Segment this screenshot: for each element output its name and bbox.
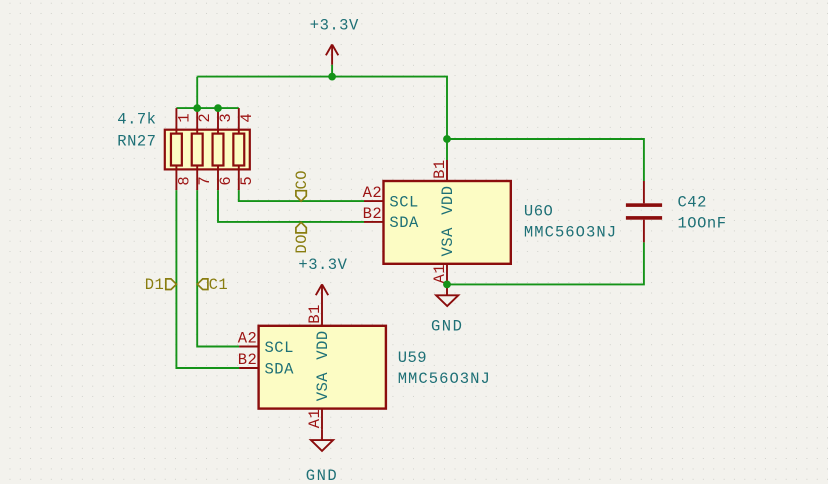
ground GND (U60) bbox=[436, 284, 458, 306]
RN27 pin 7 bbox=[196, 166, 198, 191]
wire +3.3V rail top bbox=[197, 77, 447, 139]
RN27 pin 1 bbox=[175, 108, 177, 134]
svg-text:1: 1 bbox=[175, 113, 193, 123]
svg-text:CO: CO bbox=[293, 170, 311, 190]
svg-text:SDA: SDA bbox=[389, 214, 419, 232]
ground GND (U59) bbox=[311, 429, 333, 451]
svg-text:B1: B1 bbox=[306, 304, 324, 324]
RN27 resistor element 4 bbox=[233, 134, 244, 166]
U59 pin B2 (SDA) bbox=[239, 367, 259, 369]
svg-text:A1: A1 bbox=[431, 264, 449, 284]
RN27 pin 4 bbox=[238, 108, 240, 134]
svg-text:SCL: SCL bbox=[265, 339, 294, 357]
wire RN27 top bus pins 1-4 bbox=[176, 107, 238, 109]
svg-text:MMC56O3NJ: MMC56O3NJ bbox=[524, 224, 617, 242]
junction RN27 pin 3 bbox=[214, 104, 222, 112]
resistor network RN27 body bbox=[165, 130, 250, 170]
RN27 resistor element 3 bbox=[213, 134, 224, 166]
hierarchical label C0 bbox=[293, 170, 311, 201]
junction U60 VSA / C42 / GND bbox=[443, 281, 451, 289]
U59 pin B1 (VDD) bbox=[321, 305, 323, 326]
svg-text:7: 7 bbox=[196, 176, 214, 186]
RN27 pin 2 bbox=[196, 108, 198, 134]
wire C42 bottom to U60 VSA/GND bbox=[447, 242, 644, 284]
svg-text:A2: A2 bbox=[238, 329, 258, 347]
svg-text:VSA: VSA bbox=[314, 372, 332, 402]
power +3.3V (top rail) bbox=[326, 45, 338, 65]
svg-text:B2: B2 bbox=[363, 205, 383, 223]
wire rail drop to RN27 pin 2 bbox=[196, 77, 198, 109]
U60 pin B1 (VDD) bbox=[446, 160, 448, 181]
svg-text:U59: U59 bbox=[398, 349, 427, 367]
svg-text:SCL: SCL bbox=[389, 193, 418, 211]
op IC U59 body bbox=[259, 326, 386, 409]
svg-text:VDD: VDD bbox=[439, 185, 457, 214]
capacitor C42 bbox=[626, 181, 662, 242]
wire RN27 pin5 to U60 SCL (net C0) bbox=[239, 190, 364, 201]
RN27 pin 5 bbox=[238, 166, 240, 191]
svg-text:2: 2 bbox=[196, 113, 214, 123]
svg-text:+3.3V: +3.3V bbox=[310, 16, 359, 34]
svg-text:MMC56O3NJ: MMC56O3NJ bbox=[398, 370, 491, 388]
svg-text:C1: C1 bbox=[209, 276, 229, 294]
hierarchical label D1 bbox=[145, 276, 177, 294]
hierarchical label C1 bbox=[197, 276, 228, 294]
RN27 resistor element 2 bbox=[192, 134, 203, 166]
svg-text:SDA: SDA bbox=[265, 360, 295, 378]
svg-text:DO: DO bbox=[293, 234, 311, 254]
svg-text:D1: D1 bbox=[145, 276, 165, 294]
svg-text:6: 6 bbox=[217, 176, 235, 186]
svg-text:GND: GND bbox=[306, 467, 338, 484]
svg-text:C42: C42 bbox=[678, 193, 707, 211]
wire RN27 pin8 to U59 SDA (net D1) bbox=[176, 190, 239, 368]
svg-text:A2: A2 bbox=[363, 184, 383, 202]
svg-text:B1: B1 bbox=[431, 159, 449, 179]
wire RN27 pin7 to U59 SCL (net C1) bbox=[197, 190, 239, 346]
U59 pin A1 (VSA) bbox=[321, 409, 323, 430]
junction U60 VDD / C42 bbox=[443, 135, 451, 143]
hierarchical label D0 bbox=[293, 222, 311, 253]
svg-text:3: 3 bbox=[217, 113, 235, 123]
wire power stub to rail bbox=[331, 65, 333, 77]
power +3.3V (U59) bbox=[316, 284, 328, 305]
wire U60 VDD junction down to pin B1 bbox=[446, 139, 448, 160]
svg-text:4.7k: 4.7k bbox=[117, 110, 156, 128]
svg-text:4: 4 bbox=[238, 113, 256, 123]
junction RN27 pin 2 bbox=[193, 104, 201, 112]
svg-text:VSA: VSA bbox=[439, 227, 457, 257]
svg-text:5: 5 bbox=[238, 176, 256, 186]
RN27 resistor element 1 bbox=[171, 134, 182, 166]
wire RN27 pin6 to U60 SDA (net D0) bbox=[218, 190, 364, 222]
RN27 pin 8 bbox=[175, 166, 177, 191]
svg-text:GND: GND bbox=[431, 317, 463, 335]
svg-text:RN27: RN27 bbox=[117, 133, 156, 151]
svg-text:U6O: U6O bbox=[524, 202, 553, 220]
U59 pin A2 (SCL) bbox=[239, 346, 259, 348]
svg-text:VDD: VDD bbox=[314, 330, 332, 359]
U60 pin A1 (VSA) bbox=[446, 264, 448, 285]
svg-text:B2: B2 bbox=[238, 351, 258, 369]
wire U60 VDD to C42 top bbox=[447, 139, 644, 181]
svg-text:A1: A1 bbox=[306, 409, 324, 429]
svg-text:1OOnF: 1OOnF bbox=[678, 215, 727, 233]
junction on rail at +3.3V bbox=[328, 73, 336, 81]
op IC U60 body bbox=[384, 181, 511, 264]
svg-text:8: 8 bbox=[175, 176, 193, 186]
svg-text:+3.3V: +3.3V bbox=[298, 256, 347, 274]
U60 pin A2 (SCL) bbox=[364, 200, 384, 202]
U60 pin B2 (SDA) bbox=[364, 221, 384, 223]
RN27 pin 3 bbox=[217, 108, 219, 134]
RN27 pin 6 bbox=[217, 166, 219, 191]
